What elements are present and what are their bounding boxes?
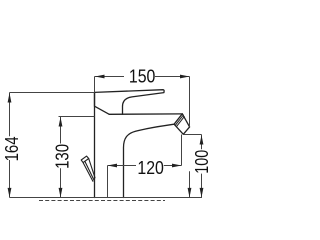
deck line dashed [39,200,165,202]
svg-text:164: 164 [2,136,22,161]
svg-text:100: 100 [192,150,212,174]
arrowheads [8,75,204,198]
dim 100 extension top [184,134,202,136]
arrow extra down [188,188,192,198]
lever handle top [95,90,165,115]
body right edge and spout underside [124,124,175,197]
dim 150 right extension [189,77,191,127]
aerator hatch 2 [177,117,185,127]
extra arrow line right [189,171,191,197]
faucet outline [81,90,189,198]
arrow 164 up [8,93,12,103]
lever tip face and wedge [95,92,110,114]
dimension texts [2,67,212,179]
aerator diamond [174,114,190,135]
aerator hatch 1 [175,115,183,125]
deck line solid [10,197,203,199]
dim 130 extension top [59,116,95,118]
svg-text:120: 120 [137,158,164,178]
arrow 130 up [59,117,63,127]
arrow 150 right [180,75,190,79]
arrow 120 left [108,164,118,168]
arrow 100 up [200,135,204,145]
arrow 120 right [172,164,182,168]
dim 120 line [108,165,182,167]
pop-up knob head [81,156,89,163]
dim 130 line [60,117,62,198]
dim 150 left extension [94,77,96,93]
svg-text:130: 130 [52,144,72,169]
dim 100 line [201,135,203,198]
dim 120 left extension [107,166,109,198]
arrow 164 down [8,188,12,198]
dim 164 line [9,93,11,198]
dimension lines [10,77,203,201]
dim 120 right extension [181,135,183,166]
svg-text:150: 150 [129,67,156,87]
dim 150 line [95,76,190,78]
body top / spout top line [109,113,182,115]
body left edge [94,92,96,197]
arrow 100 down [200,188,204,198]
pop-up knob body [83,159,95,182]
arrow 150 left [95,75,105,79]
dim 164 extension top [10,92,95,94]
arrow 130 down [59,188,63,198]
